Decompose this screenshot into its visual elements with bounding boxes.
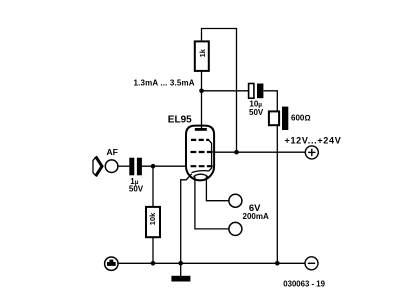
wire C1 to grid g1 <box>142 165 186 167</box>
svg-text:EL95: EL95 <box>168 114 192 125</box>
svg-text:50V: 50V <box>249 108 264 117</box>
svg-text:1k: 1k <box>198 48 207 57</box>
loudspeaker LS 600ohm <box>269 111 279 125</box>
svg-text:1.3mA ... 3.5mA: 1.3mA ... 3.5mA <box>134 79 195 88</box>
connector AF input plug <box>93 157 96 175</box>
tube cathode <box>192 171 209 173</box>
wire R1 bottom to anode node <box>201 71 203 91</box>
wire ground rail <box>118 262 305 264</box>
wire anode node down into tube anode <box>201 91 203 129</box>
svg-text:600Ω: 600Ω <box>291 114 311 123</box>
tube heater filament <box>194 174 208 177</box>
svg-text:10k: 10k <box>148 212 157 225</box>
wire heater right leg to terminal <box>206 176 229 200</box>
tube grid g1 (dashed) <box>191 165 214 167</box>
svg-text:50V: 50V <box>129 185 144 194</box>
svg-text:030063 - 19: 030063 - 19 <box>283 279 325 288</box>
wire anode node to coupling cap <box>202 90 249 92</box>
resistor R2 10k <box>146 207 160 237</box>
wire input node down to R2 <box>152 166 154 207</box>
wire loudspeaker to ground rail <box>276 125 278 263</box>
terminal supply plus <box>305 146 318 159</box>
wire R2 bottom to ground rail <box>152 237 154 263</box>
svg-text:200mA: 200mA <box>243 212 269 221</box>
wire cap to loudspeaker <box>263 91 277 112</box>
terminal supply minus <box>305 257 318 270</box>
node input junction <box>151 164 156 169</box>
svg-text:+12V...+24V: +12V...+24V <box>285 135 342 145</box>
tube g3 to cathode strap <box>209 140 212 171</box>
terminal heater lower circle <box>229 222 242 235</box>
svg-text:AF: AF <box>106 147 118 157</box>
tube anode plate <box>195 128 207 131</box>
node anode junction <box>199 89 204 94</box>
wire heater left leg to terminal <box>195 176 229 229</box>
terminal ground input circle <box>105 257 118 270</box>
terminal AF input circle <box>105 160 118 173</box>
terminal heater upper circle <box>229 194 242 207</box>
tube grid g2 (dashed) <box>191 151 214 153</box>
capacitor C1 1u 50V <box>129 158 134 176</box>
ground <box>171 276 190 282</box>
resistor R 1k <box>195 41 209 71</box>
capacitor C2 10u 50V (electrolytic, + plate hollow) <box>249 84 254 99</box>
wire cathode lead to ground rail <box>181 174 192 263</box>
wire input circle to C1 <box>118 165 129 167</box>
node speaker ground junction <box>275 261 280 266</box>
tube V1 EL95 envelope <box>186 126 214 181</box>
wire g2 to supply terminal <box>214 151 306 153</box>
node cathode ground junction <box>178 261 183 266</box>
node R2 ground junction <box>151 261 156 266</box>
wire top from R1 to supply branch <box>202 29 237 153</box>
tube grid g3 (dashed) <box>191 139 209 141</box>
node g2 supply junction <box>234 150 239 155</box>
wire ground stub <box>180 263 182 276</box>
